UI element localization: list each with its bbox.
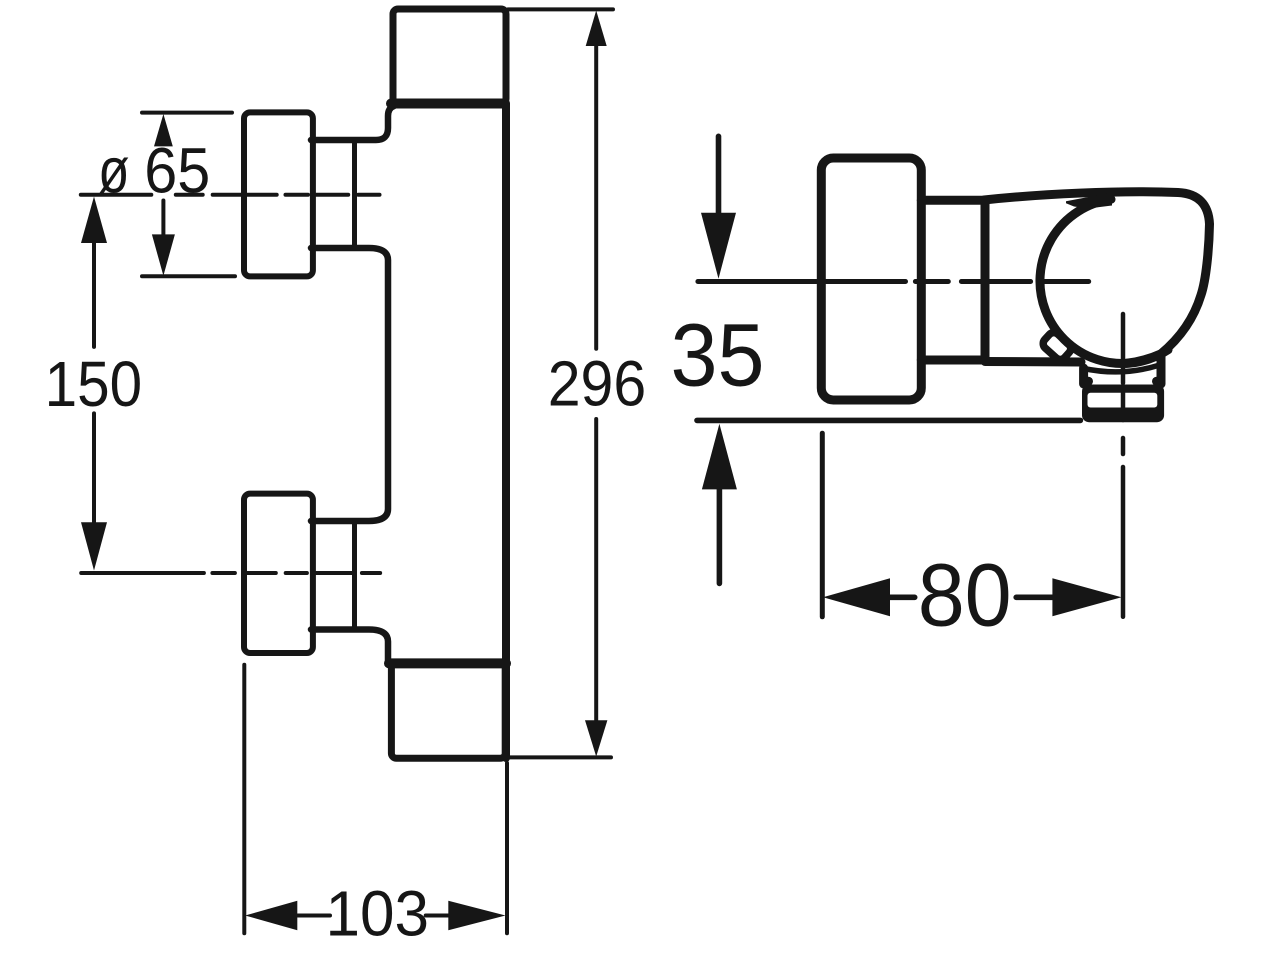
svg-text:103: 103 (326, 877, 430, 949)
svg-text:35: 35 (671, 305, 765, 405)
svg-text:65: 65 (144, 135, 210, 207)
svg-text:150: 150 (45, 348, 143, 420)
svg-text:296: 296 (548, 347, 647, 419)
svg-text:80: 80 (918, 545, 1012, 645)
svg-text:ø: ø (98, 135, 130, 207)
